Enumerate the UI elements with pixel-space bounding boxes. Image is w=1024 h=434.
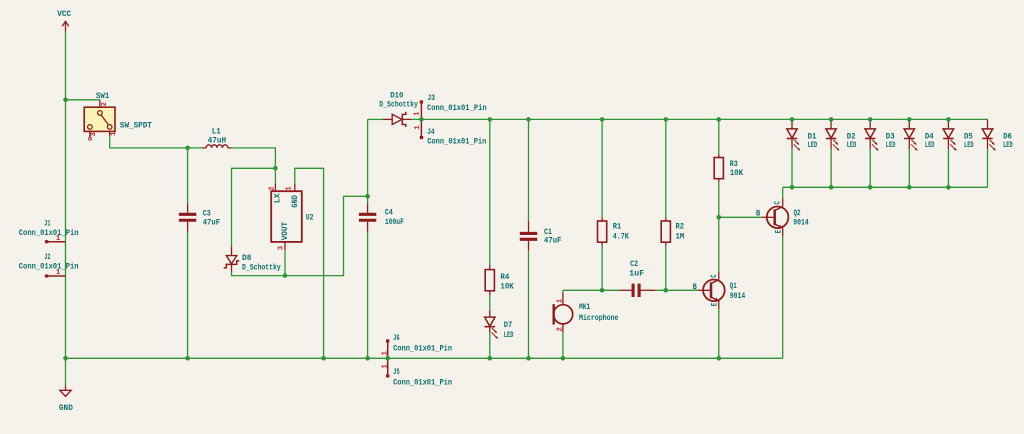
svg-text:J6: J6 — [393, 334, 400, 343]
svg-text:D10: D10 — [390, 92, 403, 101]
svg-text:R2: R2 — [676, 223, 685, 232]
svg-text:VOUT: VOUT — [281, 222, 290, 240]
svg-text:LED: LED — [847, 141, 857, 150]
svg-text:47uF: 47uF — [203, 219, 220, 228]
svg-text:SW_SPDT: SW_SPDT — [120, 122, 152, 131]
svg-text:Conn_01x01_Pin: Conn_01x01_Pin — [427, 137, 486, 147]
svg-text:2: 2 — [101, 102, 109, 106]
svg-text:C4: C4 — [385, 209, 393, 218]
svg-text:LED: LED — [886, 141, 896, 150]
svg-text:1uF: 1uF — [629, 269, 644, 278]
svg-text:J3: J3 — [428, 94, 435, 103]
svg-text:R4: R4 — [500, 273, 509, 282]
svg-text:1: 1 — [414, 111, 422, 116]
svg-text:47uF: 47uF — [544, 237, 561, 246]
svg-text:C: C — [710, 274, 719, 277]
svg-text:GND: GND — [59, 404, 73, 413]
svg-text:E: E — [774, 230, 783, 233]
svg-text:R1: R1 — [613, 223, 622, 232]
svg-text:C3: C3 — [203, 210, 211, 219]
svg-text:1: 1 — [56, 269, 61, 277]
svg-text:D7: D7 — [504, 321, 513, 330]
svg-text:J4: J4 — [427, 128, 434, 137]
svg-text:LED: LED — [925, 141, 935, 150]
svg-text:J2: J2 — [44, 253, 50, 262]
svg-text:Conn_01x01_Pin: Conn_01x01_Pin — [19, 228, 79, 238]
svg-text:Q1: Q1 — [730, 282, 737, 291]
svg-text:Q2: Q2 — [794, 209, 801, 218]
svg-text:B: B — [693, 283, 697, 292]
svg-text:10K: 10K — [500, 283, 513, 292]
svg-text:LED: LED — [504, 331, 514, 340]
svg-text:L1: L1 — [212, 127, 221, 136]
svg-text:9014: 9014 — [793, 219, 809, 228]
svg-text:2: 2 — [269, 186, 277, 190]
svg-text:Microphone: Microphone — [579, 313, 618, 323]
svg-text:1: 1 — [110, 131, 118, 136]
svg-text:J5: J5 — [393, 368, 400, 377]
svg-text:1: 1 — [56, 235, 61, 243]
svg-text:SW1: SW1 — [96, 92, 110, 101]
svg-text:1: 1 — [556, 298, 564, 303]
svg-text:Conn_01x01_Pin: Conn_01x01_Pin — [393, 377, 452, 387]
svg-text:1: 1 — [414, 125, 422, 130]
svg-text:LED: LED — [808, 141, 818, 150]
svg-text:1: 1 — [382, 364, 390, 369]
svg-text:2: 2 — [556, 327, 564, 331]
svg-text:D_Schottky: D_Schottky — [379, 100, 418, 110]
svg-text:D_Schottky: D_Schottky — [242, 263, 281, 273]
svg-text:D8: D8 — [242, 254, 251, 263]
svg-text:Conn_01x01_Pin: Conn_01x01_Pin — [19, 262, 79, 272]
svg-text:1M: 1M — [676, 232, 685, 241]
svg-text:4.7K: 4.7K — [613, 232, 629, 241]
svg-text:3: 3 — [90, 132, 98, 137]
svg-text:GND: GND — [291, 195, 300, 208]
svg-text:100uF: 100uF — [385, 218, 404, 227]
svg-text:1: 1 — [285, 186, 293, 191]
svg-text:LED: LED — [1003, 141, 1013, 150]
svg-text:R3: R3 — [730, 160, 738, 169]
svg-text:B: B — [756, 210, 760, 219]
svg-text:Conn_01x01_Pin: Conn_01x01_Pin — [427, 103, 487, 113]
svg-text:47uH: 47uH — [208, 136, 227, 145]
svg-text:3: 3 — [278, 245, 286, 250]
svg-text:U2: U2 — [306, 213, 314, 222]
svg-text:E: E — [711, 303, 720, 306]
svg-text:9014: 9014 — [730, 292, 746, 301]
svg-text:1: 1 — [382, 351, 390, 356]
svg-text:LED: LED — [964, 141, 974, 150]
svg-text:C: C — [774, 201, 783, 204]
svg-text:MK1: MK1 — [579, 303, 590, 312]
svg-text:J1: J1 — [44, 219, 50, 228]
svg-text:VCC: VCC — [57, 10, 71, 19]
svg-text:10K: 10K — [730, 169, 744, 178]
svg-text:LX: LX — [273, 193, 282, 203]
svg-text:C2: C2 — [630, 260, 638, 269]
svg-text:Conn_01x01_Pin: Conn_01x01_Pin — [393, 343, 452, 353]
